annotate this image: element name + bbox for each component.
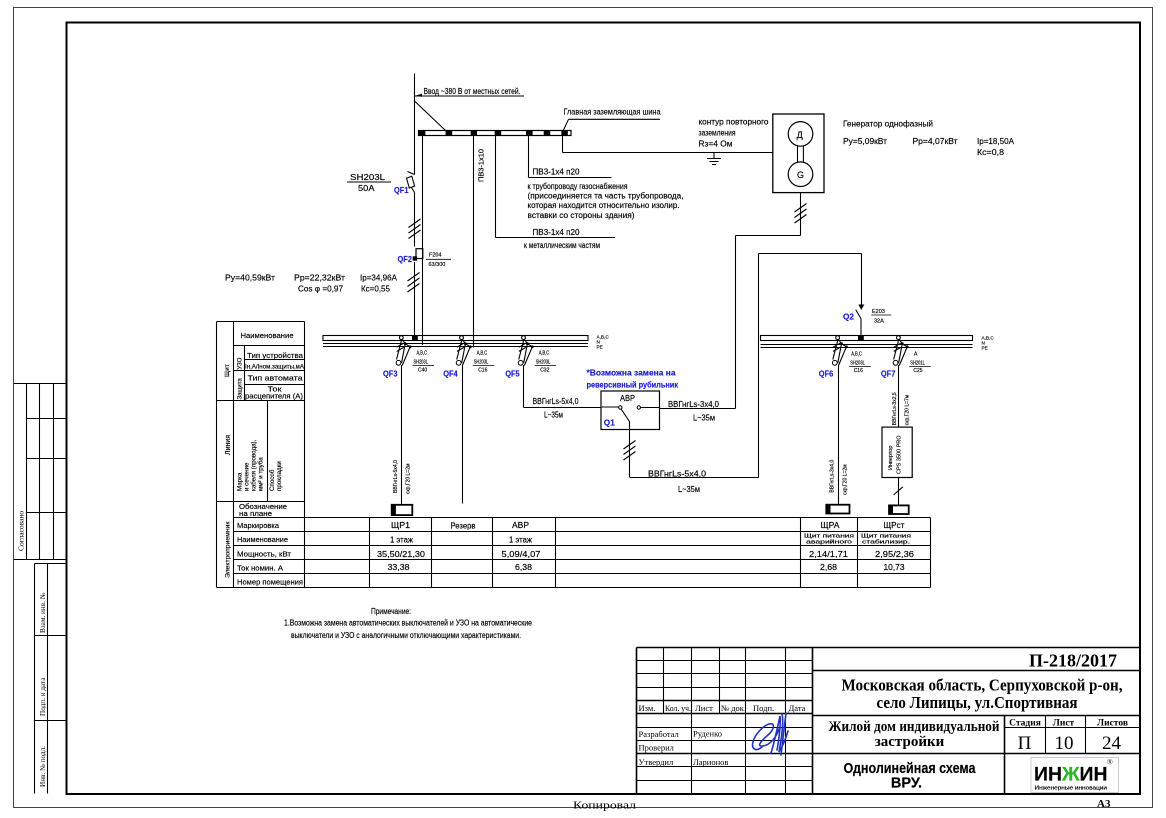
svg-text:Лист: Лист [695,703,713,713]
svg-text:33,38: 33,38 [388,563,410,572]
note: blue replacement remark [587,367,679,389]
svg-text:ЩР1: ЩР1 [391,521,410,530]
svg-text:Инвертор: Инвертор [888,446,894,470]
svg-text:Линия: Линия [225,435,232,455]
svg-text:Наименование: Наименование [237,535,288,544]
svg-text:скр,Г20 L=2м: скр,Г20 L=2м [406,463,412,494]
ground symbol (повторное заземление) [707,153,721,165]
ATS box АВР with switch Q1 [601,391,660,430]
svg-text:ВВГнгLs-5х4,0: ВВГнгLs-5х4,0 [648,469,707,478]
svg-text:№ док.: № док. [721,703,746,713]
label: left feeder params [225,272,397,293]
svg-text:Номер помещения: Номер помещения [237,577,303,586]
svg-text:Защита: Защита [238,378,244,400]
svg-text:QF4: QF4 [443,370,458,379]
RCD QF2 with label F204 63/300 [398,249,452,268]
svg-text:Примечание:: Примечание: [371,607,411,616]
svg-text:E203: E203 [872,309,885,315]
left margin approval table (Согласовано) [14,384,67,560]
svg-text:Листов: Листов [1097,718,1128,728]
svg-text:Лист: Лист [1053,718,1075,728]
svg-text:A,B,C: A,B,C [417,351,428,357]
svg-text:Ларионов: Ларионов [693,757,728,767]
wire: diagonal tap to main earthing bus [415,101,446,131]
svg-text:скр,Г20 L=2м: скр,Г20 L=2м [843,464,849,495]
label: Генератор однофазный + params [843,119,1015,156]
svg-text:ИНЖИН: ИНЖИН [1034,764,1108,786]
svg-text:Генератор однофазный: Генератор однофазный [843,119,933,128]
panel box ЩРст [889,505,909,514]
svg-text:и сечение: и сечение [244,462,251,491]
breaker QF1 [394,172,415,196]
left margin bottom strip (Взам.инв / Подп. и дата / Инв. подл.) [35,564,67,794]
svg-text:Ру=5,09кВт: Ру=5,09кВт [843,137,887,146]
generator G1 (box with motor/generator circles) [773,114,824,193]
svg-text:ЩРст: ЩРст [884,521,905,530]
breaker QF4 [443,336,494,379]
wire slashes below QF2 [408,273,420,293]
svg-text:2,68: 2,68 [820,563,837,572]
svg-text:АВР: АВР [620,394,635,403]
svg-text:Инв. № подл.: Инв. № подл. [39,746,47,787]
wire: drop to metal parts leader [496,136,616,238]
node: feeder label arrow [415,95,525,97]
svg-text:Рр=22,32кВт: Рр=22,32кВт [294,272,345,282]
svg-text:аварийного: аварийного [806,538,852,545]
svg-text:SH201L: SH201L [910,360,925,366]
svg-text:Рр=4,07кВт: Рр=4,07кВт [913,137,958,146]
svg-text:АВР: АВР [512,521,529,530]
svg-text:село Липицы, ул.Спортивная: село Липицы, ул.Спортивная [877,693,1078,712]
busbar 1 (ЩР1 board) [323,335,609,350]
svg-text:Д: Д [797,130,803,140]
svg-text:A,B,C: A,B,C [851,352,862,358]
svg-text:*Возможна замена на: *Возможна замена на [587,367,676,377]
svg-text:на плане: на плане [239,511,272,518]
svg-text:Маркировка: Маркировка [237,521,280,530]
svg-text:Щит: Щит [224,364,231,377]
title block grid [637,648,1141,795]
wire QF7 to inverter [898,365,900,427]
svg-text:CPS 3500 PRO: CPS 3500 PRO [897,435,903,474]
svg-text:SH203L: SH203L [474,360,489,366]
main earthing bus (ГЗШ) [419,131,572,136]
svg-text:Взам. инв. №: Взам. инв. № [39,592,47,633]
svg-text:заземления: заземления [699,129,736,138]
wire: ПВ3-1х10 drop [473,136,475,348]
svg-text:Тип устройства: Тип устройства [247,351,303,360]
svg-text:Кс=0,55: Кс=0,55 [361,283,390,293]
svg-text:Наименование: Наименование [241,331,294,340]
svg-text:32А: 32А [874,319,884,325]
svg-text:Q1: Q1 [604,419,615,428]
svg-text:ВВГнгLs-5х4,0: ВВГнгLs-5х4,0 [393,460,399,493]
svg-text:QF2: QF2 [398,255,413,264]
svg-text:Марка: Марка [237,472,244,491]
svg-text:C25: C25 [913,368,922,374]
svg-text:Согласовано: Согласовано [17,511,26,551]
svg-text:SH203L: SH203L [536,360,551,366]
svg-text:Копировал: Копировал [573,801,636,812]
svg-text:Электроприемник: Электроприемник [225,522,232,578]
wire slashes on АВР output [624,441,636,461]
svg-text:ВРУ.: ВРУ. [891,776,922,792]
svg-text:ПВ3-1х10: ПВ3-1х10 [477,149,486,182]
svg-text:Iр=34,96А: Iр=34,96А [360,272,397,282]
label: Главная заземляющая шина [564,107,661,131]
svg-text:Дата: Дата [789,703,806,713]
svg-text:35,50/21,30: 35,50/21,30 [377,550,426,559]
svg-text:Резерв: Резерв [451,522,476,531]
breaker QF5 [505,336,556,379]
svg-text:Проверил: Проверил [639,743,675,753]
svg-text:Стадия: Стадия [1009,718,1041,728]
svg-text:C16: C16 [478,367,487,373]
svg-text:2,95/2,36: 2,95/2,36 [875,550,914,559]
svg-text:50A: 50A [358,184,375,193]
svg-text:Подп. и дата: Подп. и дата [39,677,47,716]
svg-text:Подп.: Подп. [753,703,774,713]
svg-text:к трубопроводу газоснабжения: к трубопроводу газоснабжения [528,182,628,191]
svg-text:C40: C40 [418,367,427,373]
svg-text:QF5: QF5 [505,370,520,379]
svg-text:прокладки: прокладки [276,461,283,491]
label: контур повторного заземления [699,118,770,149]
svg-text:Утвердил: Утвердил [639,757,674,767]
svg-text:QF7: QF7 [881,370,896,379]
svg-text:Мощность, кВт: Мощность, кВт [237,549,292,558]
wire: PE drops crossing busbar 1 [423,336,474,348]
svg-text:1 этаж: 1 этаж [390,536,414,545]
parameter table (Щит / Линия) [217,322,305,588]
signature (blue) [753,713,788,755]
svg-text:контур повторного: контур повторного [699,118,770,127]
svg-text:F204: F204 [429,253,442,259]
inverter box CPS 3500 PRO [882,427,912,477]
label ПВ3-1х4 п20 (gas pipe) [528,168,684,220]
svg-text:скр,Г20 L=7м: скр,Г20 L=7м [905,394,911,425]
svg-text:10,73: 10,73 [884,563,905,572]
svg-text:1.Возможна замена автоматическ: 1.Возможна замена автоматических выключа… [284,618,532,627]
label ПВ3-1х4 п20 (metal parts) [524,228,600,250]
svg-text:ПВ3-1х4 п20: ПВ3-1х4 п20 [533,228,581,237]
logo ИНЖИН [1031,758,1119,793]
svg-text:ВВГнгLs-5х4,0: ВВГнгLs-5х4,0 [533,397,580,406]
svg-text:Руденко: Руденко [693,729,722,739]
wire slashes below generator [795,204,807,224]
svg-text:Тип автомата: Тип автомата [248,374,303,383]
svg-text:Кол. уч.: Кол. уч. [665,703,691,713]
svg-text:Ток номин. А: Ток номин. А [237,563,284,572]
svg-text:которая находится относительно: которая находится относительно изолир. [528,201,680,210]
svg-text:SH203L: SH203L [850,360,865,366]
svg-text:ВВГнгLs-3х4,0: ВВГнгLs-3х4,0 [830,460,836,493]
wire: drop to gas pipe leader [529,136,612,178]
svg-text:вставки со стороны здания): вставки со стороны здания) [528,211,635,220]
title block header row texts [639,703,806,767]
svg-text:®: ® [1107,758,1113,767]
svg-text:П: П [1018,733,1032,754]
busbar 2 (ЩРА/ЩРст board) [761,335,995,350]
svg-text:Rз=4 Ом: Rз=4 Ом [699,139,733,148]
wire: generator down feed [660,193,801,409]
svg-text:мм² и труба: мм² и труба [258,457,265,491]
svg-text:УЗО: УЗО [238,357,244,369]
svg-text:QF6: QF6 [819,370,834,379]
wire slashes above QF2 [409,219,421,239]
svg-text:L~35м: L~35м [678,485,700,494]
svg-text:А3: А3 [1097,798,1111,810]
svg-text:63/300: 63/300 [429,262,446,268]
svg-text:QF3: QF3 [383,370,398,379]
svg-text:10: 10 [1055,733,1074,754]
svg-text:5,09/4,07: 5,09/4,07 [502,550,541,559]
svg-text:PE: PE [597,345,603,350]
svg-text:расцепителя (А): расцепителя (А) [245,392,303,401]
title block right texts [829,651,1128,792]
svg-text:Изм.: Изм. [639,703,656,713]
svg-text:SH203L: SH203L [414,360,429,366]
breaker QF3 [383,336,434,379]
panel box ЩР1 [392,505,413,515]
svg-text:реверсивный рубильник: реверсивный рубильник [587,379,679,389]
svg-text:Главная заземляющая шина: Главная заземляющая шина [564,107,661,117]
wire QF3 to ЩР1 [401,365,403,505]
svg-text:QF1: QF1 [394,186,409,195]
panel box ЩРА [826,505,849,514]
svg-text:ЩРА: ЩРА [821,521,841,530]
svg-text:(присоединяется та часть трубо: (присоединяется та часть трубопровода, [528,192,684,201]
wire: АВР output run to Q2 [630,254,862,478]
svg-text:Разработал: Разработал [639,729,680,739]
svg-text:ПВ3-1х4 п20: ПВ3-1х4 п20 [533,168,581,177]
svg-text:Iн,А/Iном.защиты,мА: Iн,А/Iном.защиты,мА [245,364,304,370]
breaker QF6 [819,336,871,379]
svg-text:SH203L: SH203L [350,173,386,182]
svg-text:выключатели и УЗО с аналогичны: выключатели и УЗО с аналогичными отключа… [291,631,521,640]
wire QF4 reserve [462,365,464,504]
svg-text:PE: PE [982,346,988,351]
wire: incoming feeder 380V vertical [414,74,416,336]
svg-text:6,38: 6,38 [515,563,532,572]
svg-text:A,B,C: A,B,C [477,351,488,357]
svg-text:Q2: Q2 [843,313,854,322]
svg-text:C32: C32 [540,367,549,373]
svg-text:C16: C16 [854,368,863,374]
svg-text:Ру=40,59кВт: Ру=40,59кВт [225,272,275,282]
svg-text:кабеля (провода),: кабеля (провода), [251,439,258,491]
svg-text:Способ: Способ [269,469,276,491]
note Примечание [284,607,532,640]
svg-text:Ввод ~380 В от местных сетей.: Ввод ~380 В от местных сетей. [424,86,521,96]
svg-text:2,14/1,71: 2,14/1,71 [809,550,848,559]
wire inverter to ЩРст [894,478,903,506]
node: Q2 connection square on busbar 2 [858,335,864,340]
wire: PE drop from bus left to switchboard [422,136,424,345]
wire QF5 to АВР main input [524,365,602,408]
switch Q2 with label E203/32A [843,305,891,336]
svg-text:П-218/2017: П-218/2017 [1029,651,1117,671]
node: feeder connection square on busbar 1 [412,335,418,340]
svg-text:L~35м: L~35м [544,410,563,419]
svg-text:1 этаж: 1 этаж [509,536,533,545]
svg-text:Cos φ =0,97: Cos φ =0,97 [298,283,343,293]
wire: drop to repeat-ground wire [562,136,564,153]
svg-text:L~35м: L~35м [693,414,715,423]
svg-text:ВВГнгLs-3х2,5: ВВГнгLs-3х2,5 [892,392,898,425]
svg-text:застройки: застройки [875,734,945,750]
svg-text:Жилой дом индивидуальной: Жилой дом индивидуальной [829,719,1000,735]
svg-text:A,B,C: A,B,C [539,351,550,357]
svg-text:24: 24 [1102,733,1122,754]
svg-text:стабилизир.: стабилизир. [862,539,910,545]
wire: repeat grounding horizontal run [563,152,773,154]
svg-text:Инженерные инновации: Инженерные инновации [1035,786,1108,792]
breaker QF7 [881,336,931,379]
label SH203L/50A for QF1 [347,173,391,193]
svg-text:к металлическим частям: к металлическим частям [524,241,600,250]
svg-text:Iр=18,50А: Iр=18,50А [977,137,1015,146]
svg-text:ВВГнгLs-3х4,0: ВВГнгLs-3х4,0 [668,400,720,409]
svg-text:Московская область, Серпуховск: Московская область, Серпуховской р-он, [842,676,1123,695]
svg-text:G: G [797,170,804,180]
svg-text:Кс=0,8: Кс=0,8 [977,148,1004,157]
wire QF6 to ЩРА [838,365,840,505]
svg-text:Обозначение: Обозначение [239,503,287,511]
load summary table [217,502,931,588]
